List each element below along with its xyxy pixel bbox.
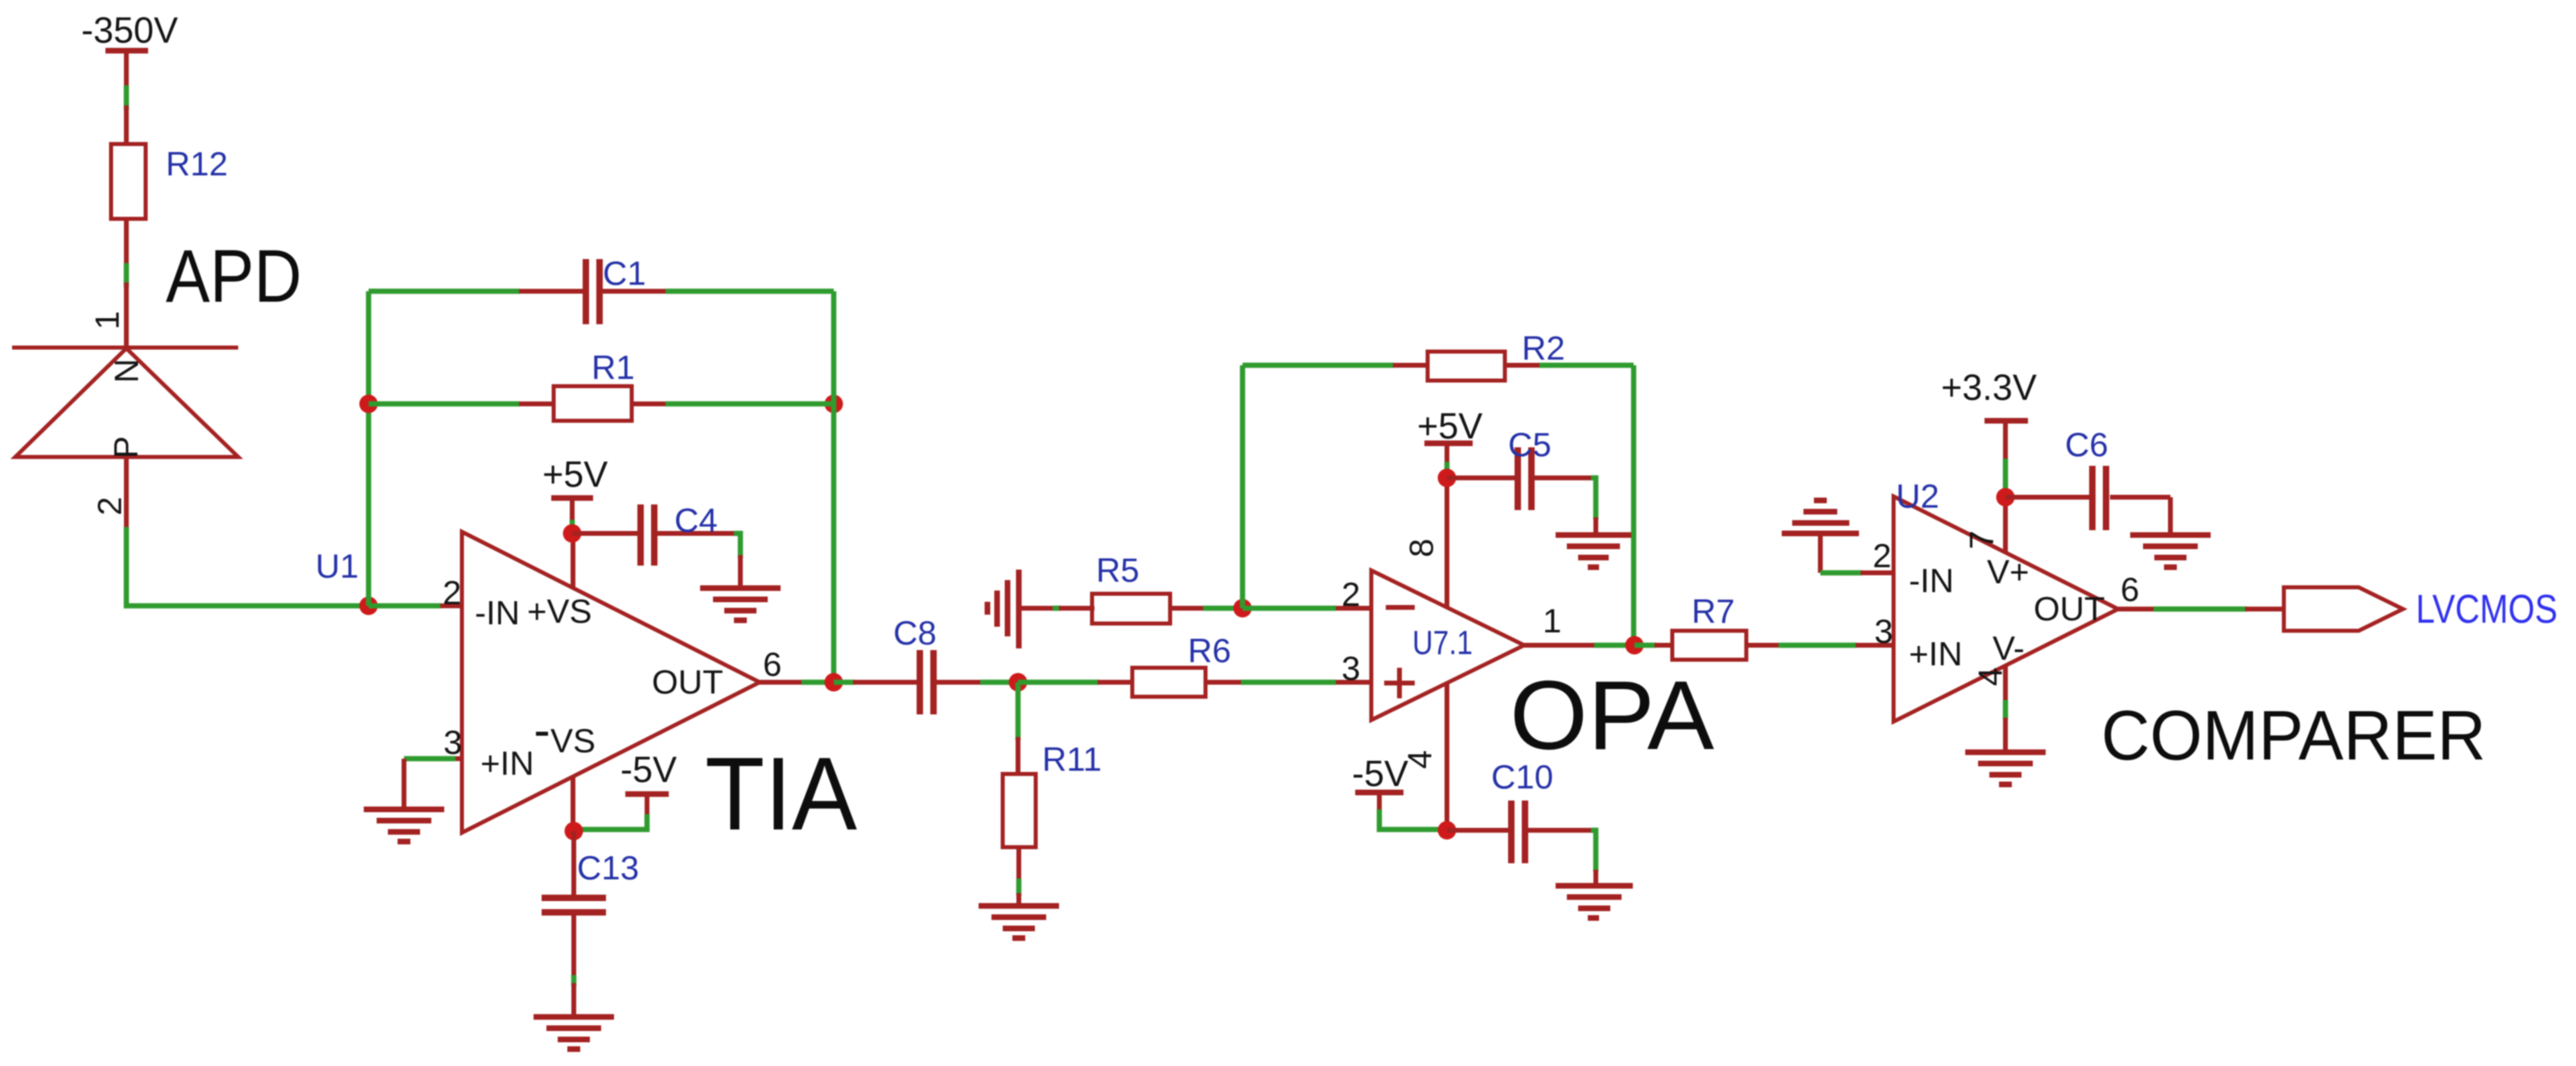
svg-text:-350V: -350V [81, 10, 178, 51]
svg-text:3: 3 [1342, 649, 1360, 687]
wire [402, 759, 406, 809]
resistor R11 [1003, 737, 1102, 882]
wire [2003, 700, 2009, 719]
wire [802, 680, 834, 685]
wire [1539, 363, 1634, 368]
svg-text:-5V: -5V [620, 749, 677, 790]
wire [1016, 879, 1022, 896]
svg-text:C4: C4 [674, 501, 718, 539]
capacitor C8 [853, 614, 982, 714]
svg-text:+3.3V: +3.3V [1941, 367, 2037, 408]
svg-text:R7: R7 [1692, 592, 1735, 630]
op-amp U2 [1856, 477, 2154, 722]
wire [831, 291, 837, 682]
capacitor C13 [542, 831, 639, 1017]
junction [1997, 488, 2015, 507]
wire [369, 289, 520, 294]
wire [1243, 606, 1336, 611]
svg-text:VS: VS [550, 722, 596, 759]
svg-text:TIA: TIA [705, 736, 857, 852]
svg-text:6: 6 [2121, 570, 2139, 608]
svg-text:LVCMOS: LVCMOS [2416, 587, 2557, 632]
wire [1016, 893, 1021, 906]
power -5V [575, 749, 677, 829]
resistor R1 [519, 348, 666, 421]
svg-text:8: 8 [1403, 538, 1440, 557]
ground (inverted, at U2 pin 2) [1782, 500, 1859, 573]
svg-text:2: 2 [443, 574, 461, 611]
svg-text:+IN: +IN [480, 744, 534, 782]
wire [366, 291, 372, 606]
ground [1556, 886, 1633, 918]
wire [369, 401, 520, 407]
capacitor C10 [1447, 758, 1596, 886]
wire [2003, 718, 2008, 752]
ground (rotated, left of R5) [987, 570, 1055, 648]
capacitor C6 [2005, 426, 2170, 535]
svg-text:C13: C13 [577, 849, 639, 887]
wire [2154, 607, 2247, 612]
wire [1243, 363, 1394, 368]
svg-text:3: 3 [1874, 612, 1893, 650]
svg-text:1: 1 [1543, 602, 1561, 640]
wire [1631, 365, 1637, 645]
svg-text:7: 7 [1963, 530, 2001, 549]
svg-text:APD: APD [166, 234, 302, 318]
junction [360, 395, 378, 414]
port LVCMOS [2245, 587, 2557, 632]
wire [126, 527, 369, 606]
wire [124, 263, 130, 287]
svg-text:C1: C1 [603, 254, 646, 292]
junction [1234, 599, 1252, 618]
wire [1016, 682, 1021, 740]
svg-text:OPA: OPA [1510, 661, 1715, 770]
svg-text:2: 2 [91, 496, 129, 515]
svg-text:-IN: -IN [1909, 562, 1954, 599]
resistor R5 [1059, 551, 1203, 624]
wire [1634, 643, 1656, 648]
svg-text:U1: U1 [315, 547, 359, 585]
ground [364, 809, 444, 842]
wire [1241, 680, 1336, 685]
wire [666, 289, 834, 294]
junction [1626, 636, 1644, 655]
svg-text:R1: R1 [591, 348, 635, 386]
svg-text:2: 2 [1342, 575, 1360, 613]
power +3.3V [1941, 367, 2037, 491]
svg-text:V-: V- [1993, 629, 2025, 667]
resistor R12 [111, 105, 228, 268]
svg-text:+5V: +5V [542, 454, 608, 495]
power -5V [1352, 753, 1446, 829]
capacitor C4 [572, 501, 740, 588]
ground [979, 906, 1059, 938]
svg-text:R2: R2 [1522, 329, 1565, 367]
svg-text:R6: R6 [1188, 632, 1231, 669]
svg-text:R12: R12 [166, 145, 228, 183]
wire [1053, 606, 1061, 611]
svg-text:OUT: OUT [652, 663, 723, 701]
wire [834, 680, 855, 685]
power +5V [542, 454, 608, 534]
svg-text:C5: C5 [1508, 426, 1552, 463]
svg-text:V+: V+ [1987, 553, 2030, 591]
wire [1778, 643, 1857, 648]
svg-text:4: 4 [1972, 667, 2009, 685]
svg-text:P: P [107, 436, 145, 459]
op-amp U1 [315, 532, 802, 833]
capacitor C1 [519, 254, 666, 324]
svg-text:+IN: +IN [1909, 635, 1963, 673]
ground [534, 1017, 614, 1049]
ground [1556, 535, 1631, 567]
junction [825, 395, 843, 414]
capacitor C5 [1447, 426, 1596, 535]
junction [565, 822, 583, 841]
svg-text:+5V: +5V [1417, 405, 1482, 447]
wire [1240, 365, 1246, 608]
power +5V [1417, 405, 1482, 478]
svg-text:OUT: OUT [2034, 590, 2105, 628]
svg-text:R11: R11 [1042, 740, 1102, 778]
junction [825, 673, 843, 692]
wire [124, 85, 130, 110]
svg-text:-5V: -5V [1352, 753, 1408, 794]
photodiode APD [12, 234, 302, 531]
resistor R6 [1098, 632, 1241, 697]
svg-text:R5: R5 [1096, 551, 1140, 589]
op-amp U7.1 [1336, 481, 1595, 830]
resistor R7 [1655, 592, 1778, 660]
wire [666, 401, 834, 407]
svg-text:N: N [108, 359, 146, 383]
svg-text:U2: U2 [1896, 477, 1939, 515]
wire [1820, 570, 1862, 576]
resistor R2 [1393, 329, 1565, 381]
wire [1203, 606, 1234, 611]
svg-text:6: 6 [763, 645, 781, 683]
junction [1009, 673, 1028, 692]
ground [700, 588, 781, 620]
junction [1438, 821, 1457, 840]
svg-text:U7.1: U7.1 [1412, 624, 1473, 661]
svg-text:-IN: -IN [475, 594, 520, 632]
svg-text:2: 2 [1873, 537, 1891, 574]
svg-text:C8: C8 [893, 614, 937, 652]
junction [360, 597, 378, 615]
ground [2130, 535, 2211, 567]
junction [563, 525, 582, 543]
svg-text:C6: C6 [2065, 426, 2108, 463]
junction [1438, 469, 1457, 488]
wire [369, 603, 441, 609]
svg-text:3: 3 [443, 723, 462, 761]
ground [1965, 752, 2046, 784]
wire [404, 756, 455, 762]
wire [980, 680, 1018, 685]
svg-text:+VS: +VS [527, 592, 592, 630]
power port -350V [81, 10, 178, 90]
svg-text:COMPARER: COMPARER [2101, 697, 2486, 775]
svg-text:1: 1 [89, 311, 126, 329]
wire [1594, 643, 1634, 648]
wire [1018, 680, 1099, 685]
